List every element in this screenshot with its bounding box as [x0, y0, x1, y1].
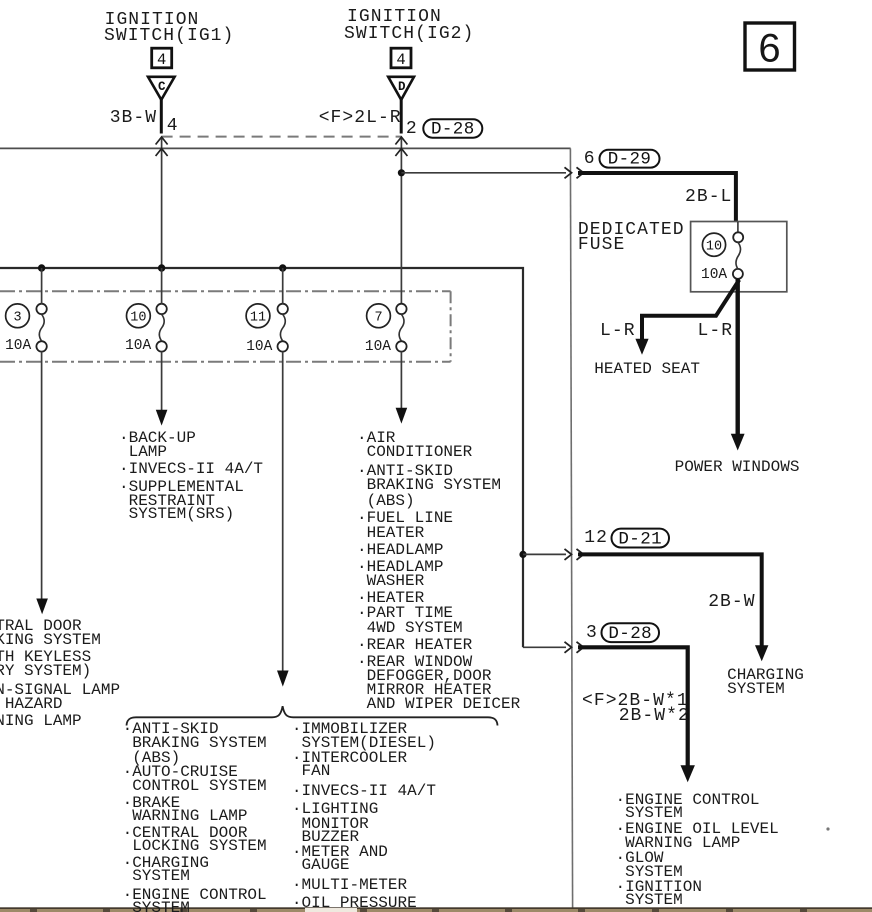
- arrowhead up at dashed line (IG2): [395, 137, 407, 145]
- label SWITCH(IG2) line 2: [344, 25, 474, 43]
- wire label L-R right: [698, 322, 734, 340]
- svg-text:11: 11: [250, 311, 266, 326]
- junction node on IG2 wire: [398, 169, 405, 176]
- arrowhead down engine control list: [681, 765, 695, 782]
- wire fuse 10 lower segment to arrow: [161, 351, 163, 410]
- dedicated fuse box: [691, 222, 787, 292]
- arrowhead down HEATED SEAT: [635, 339, 648, 355]
- load list braced left column: [0, 0, 872, 1]
- fuse 11 rating 10A: [246, 340, 272, 355]
- wire label 2B-W: [708, 593, 755, 611]
- pin number 4 (IG1): [167, 117, 179, 135]
- wire label <F>2B-W*1: [582, 692, 689, 710]
- connector label D-29: [600, 149, 660, 169]
- wire label 2B-L: [685, 188, 732, 206]
- wire fuse 3 lower segment to arrow: [41, 351, 43, 599]
- svg-text:6: 6: [758, 27, 780, 71]
- arrowhead down to braced list: [277, 671, 289, 687]
- label IGNITION SWITCH(IG1): [105, 11, 200, 29]
- fuse block dashed outline right edge: [450, 291, 452, 362]
- load label CHARGING: [727, 667, 804, 683]
- connector label D-28 top: [423, 119, 482, 139]
- fuse block dashed outline bottom: [0, 361, 451, 363]
- thick wire L-R branch to HEATED SEAT: [642, 280, 739, 340]
- section boundary vertical line: [570, 148, 572, 908]
- load list ENGINE CONTROL group: [0, 0, 872, 1]
- connector label D-28 bottom: [602, 623, 660, 644]
- wire IG2 thin segment down through bus to fuse 7: [400, 138, 402, 304]
- arrowhead up at boundary line (IG2): [395, 149, 407, 157]
- curly brace over braced list: [127, 706, 498, 725]
- junction node bus / fuse 3: [38, 264, 45, 271]
- thick wire from dedicated fuse down to POWER WINDOWS: [736, 279, 740, 435]
- wire label <F>2L-R: [319, 109, 402, 127]
- wire IG1 thin segment down to bus: [161, 138, 163, 268]
- arrowhead down POWER WINDOWS: [731, 434, 745, 451]
- junction node on branch column for D-21: [519, 551, 526, 558]
- dedicated fuse number circle 10: [702, 233, 725, 256]
- dedicated fuse rating 10A: [701, 268, 727, 283]
- label DEDICATED: [578, 221, 685, 239]
- wire branch to connector D-29 (thin): [401, 172, 566, 174]
- fuse 10 element (contacts and link): [156, 304, 166, 352]
- wire fuse 3 upper segment: [41, 268, 43, 304]
- load list BACK-UP LAMP group: [0, 0, 872, 1]
- svg-text:D-21: D-21: [618, 529, 662, 549]
- fuse 10 number circle: [126, 304, 150, 328]
- fuse 7 element (contacts and link): [396, 304, 406, 352]
- scan speck: [826, 827, 829, 830]
- connector pin box 4 (IG2): [391, 48, 411, 69]
- connector triangle C (IGNITION SWITCH IG1): [148, 77, 175, 100]
- dashed tie line between IG1 and IG2 wires: [162, 136, 402, 138]
- load list AIR CONDITIONER group: [0, 0, 872, 1]
- svg-text:D-28: D-28: [608, 624, 652, 644]
- arrowhead up at boundary line (IG1): [156, 149, 168, 157]
- arrowhead down BACK-UP list: [156, 410, 168, 426]
- svg-text:10: 10: [130, 311, 146, 326]
- connector pin box 4 (IG1): [152, 48, 172, 69]
- chevron arrows crossing boundary at D-21 branch: [565, 549, 584, 560]
- pin number 3 (D-28): [586, 624, 598, 642]
- wire fuse 10 upper segment: [161, 268, 163, 304]
- wire label L-R left: [600, 322, 636, 340]
- arrowhead down AIR CONDITIONER list: [396, 408, 408, 424]
- wire branch to connector D-28 (thin): [523, 646, 566, 648]
- svg-text:4: 4: [396, 51, 405, 69]
- svg-text:C: C: [158, 80, 166, 94]
- fuse 7 number circle: [367, 304, 391, 328]
- label IGNITION SWITCH(IG2): [347, 8, 442, 26]
- fuse 7 rating 10A: [365, 340, 391, 355]
- svg-text:7: 7: [374, 311, 382, 326]
- thick wire 2B-W*1/2B-W*2 to engine list: [578, 647, 688, 766]
- junction node bus / fuse 10: [158, 264, 165, 271]
- svg-text:D: D: [398, 80, 406, 94]
- connector label D-21: [612, 529, 670, 550]
- svg-text:4: 4: [157, 51, 166, 69]
- junction node bus / fuse 11: [279, 264, 286, 271]
- fuse 3 number circle: [6, 304, 30, 328]
- wire 2L-R from connector D (thick segment): [400, 99, 403, 134]
- load label POWER WINDOWS: [675, 459, 800, 475]
- fuse 3 element (contacts and link): [36, 304, 46, 352]
- thick wire 2B-L to dedicated fuse: [578, 173, 736, 222]
- load label CHARGING SYSTEM line2: [727, 681, 785, 697]
- wire fuse 11 upper segment: [282, 268, 284, 304]
- page number box 6: [745, 23, 795, 71]
- svg-text:10: 10: [706, 239, 722, 254]
- fuse 11 element (contacts and link): [278, 304, 288, 352]
- load label HEATED SEAT: [594, 361, 700, 377]
- pin number 6 (D-29): [584, 150, 596, 168]
- chevron arrows crossing boundary at D-29 branch: [565, 167, 584, 178]
- section boundary horizontal line: [0, 147, 571, 149]
- chevron arrows crossing boundary at D-28 branch: [565, 642, 584, 653]
- wire label 2B-W*2: [619, 707, 690, 725]
- arrowhead up at dashed line (IG1): [156, 137, 168, 145]
- wire fuse 7 lower segment to arrow: [400, 351, 402, 408]
- pin number 2 (IG2): [406, 120, 418, 138]
- arrowhead down CHARGING SYSTEM: [755, 645, 768, 661]
- connector triangle D (IGNITION SWITCH IG2): [388, 77, 414, 100]
- pin number 12 (D-21): [584, 529, 608, 547]
- wire fuse 11 lower segment to arrow: [282, 351, 284, 671]
- svg-text:3: 3: [13, 311, 21, 326]
- main bus wire from fuse block to branch column: [0, 268, 523, 647]
- fuse 10 rating 10A: [125, 339, 151, 354]
- arrowhead down central door list: [36, 599, 48, 615]
- wire branch to connector D-21 (thin): [523, 553, 566, 555]
- wire 3B-W from connector C (thick segment): [160, 99, 163, 134]
- dedicated fuse element (contacts and link): [733, 222, 743, 279]
- fuse 3 rating 10A: [5, 339, 31, 354]
- load list braced right column: [0, 0, 872, 1]
- label SWITCH(IG1) line 2: [104, 27, 234, 45]
- wire label 3B-W: [110, 109, 157, 127]
- fuse block dashed outline top: [0, 290, 451, 292]
- svg-text:D-28: D-28: [431, 120, 475, 140]
- label FUSE: [578, 236, 625, 254]
- svg-text:D-29: D-29: [608, 149, 652, 169]
- thick wire 2B-W to CHARGING SYSTEM: [578, 554, 762, 646]
- fuse 11 number circle: [246, 304, 270, 328]
- bottom border strip: [0, 907, 872, 912]
- load list CENTRAL DOOR (cut at left edge): [0, 0, 872, 1]
